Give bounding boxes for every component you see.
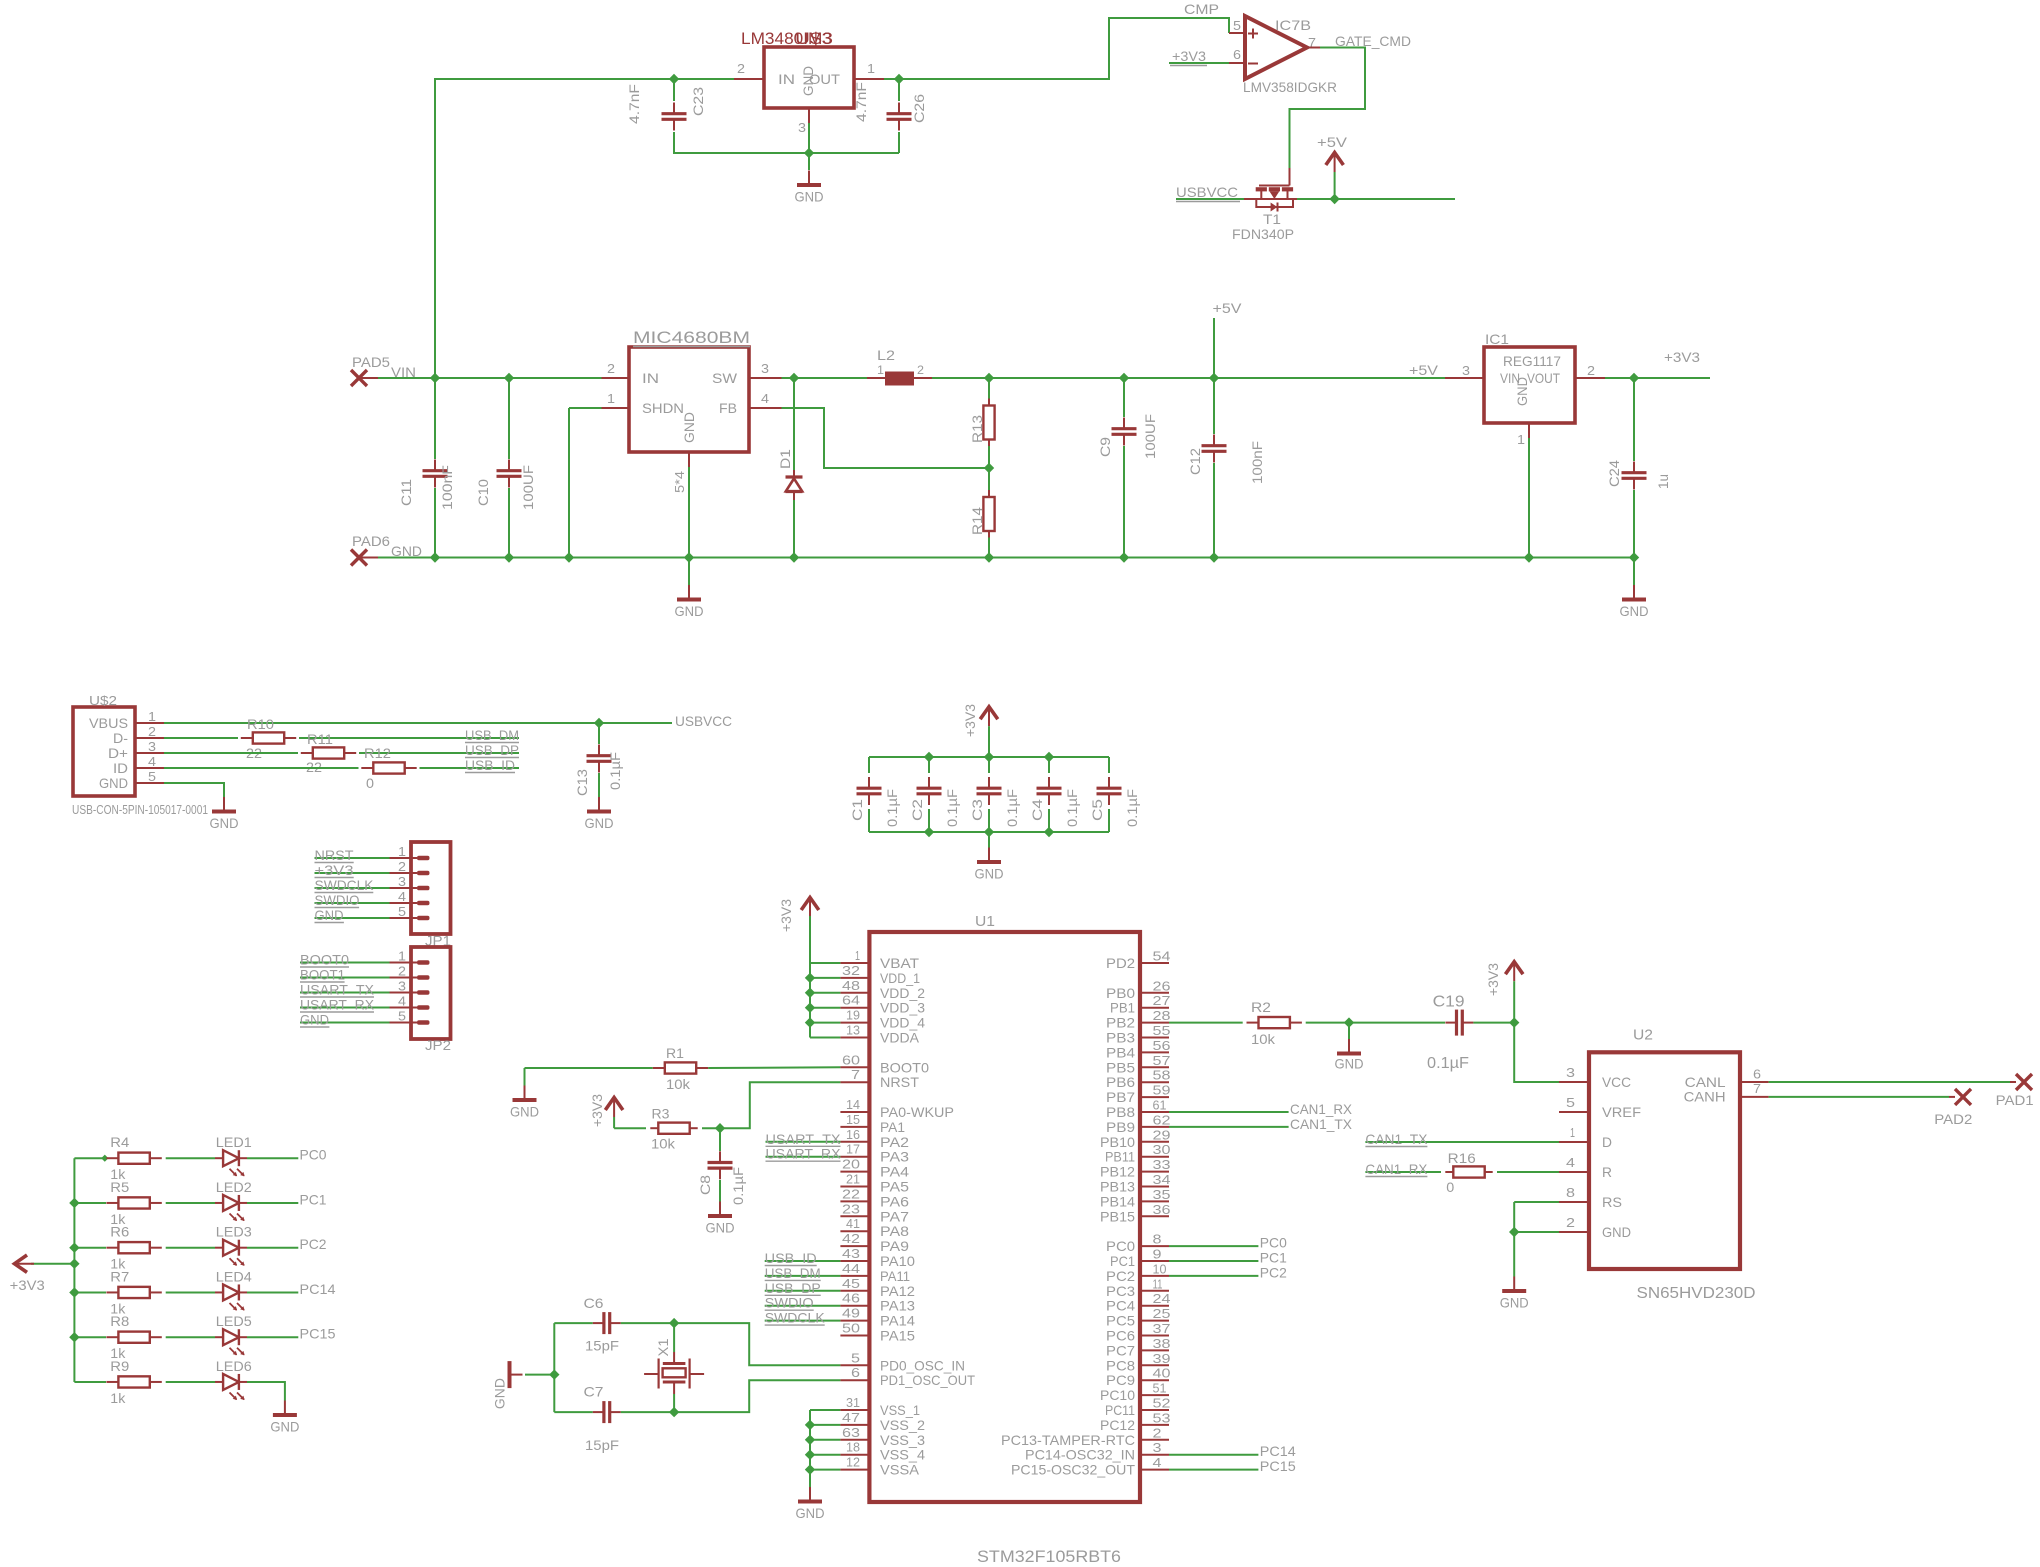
svg-text:LED1: LED1	[216, 1134, 252, 1150]
svg-text:+3V3: +3V3	[1172, 48, 1206, 64]
svg-text:3: 3	[398, 979, 406, 994]
svg-text:GND: GND	[795, 189, 824, 205]
svg-text:RS: RS	[1602, 1194, 1622, 1210]
svg-text:LED5: LED5	[216, 1313, 252, 1329]
svg-text:R12: R12	[364, 745, 391, 761]
svg-text:R: R	[1602, 1164, 1612, 1180]
svg-text:GND: GND	[675, 603, 704, 619]
svg-text:1: 1	[867, 61, 875, 76]
svg-text:PC4: PC4	[1106, 1298, 1135, 1314]
svg-text:53: 53	[1153, 1410, 1171, 1425]
svg-text:3: 3	[761, 361, 769, 376]
svg-text:R11: R11	[307, 731, 333, 747]
svg-text:+3V3: +3V3	[962, 704, 978, 737]
svg-text:0.1µF: 0.1µF	[884, 789, 900, 827]
svg-text:U$3: U$3	[795, 29, 833, 48]
svg-text:USB_DM: USB_DM	[765, 1265, 821, 1281]
svg-text:PB7: PB7	[1106, 1089, 1135, 1105]
svg-text:14: 14	[846, 1097, 860, 1112]
svg-text:10k: 10k	[1251, 1031, 1276, 1047]
svg-text:PB2: PB2	[1106, 1015, 1135, 1031]
svg-text:5: 5	[1233, 18, 1241, 33]
svg-text:PC5: PC5	[1106, 1313, 1135, 1329]
svg-text:PA3: PA3	[880, 1149, 909, 1165]
svg-text:45: 45	[842, 1276, 860, 1291]
svg-text:LED6: LED6	[216, 1358, 252, 1374]
svg-text:37: 37	[1153, 1321, 1171, 1336]
svg-text:31: 31	[846, 1395, 860, 1410]
svg-text:PC13-TAMPER-RTC: PC13-TAMPER-RTC	[1001, 1432, 1135, 1448]
svg-text:13: 13	[846, 1023, 860, 1038]
svg-text:8: 8	[1566, 1185, 1575, 1200]
svg-text:PB9: PB9	[1106, 1119, 1135, 1135]
svg-text:PC2: PC2	[1106, 1268, 1135, 1284]
svg-text:SN65HVD230D: SN65HVD230D	[1637, 1285, 1756, 1302]
svg-text:6: 6	[851, 1365, 860, 1380]
svg-text:R1: R1	[666, 1045, 684, 1061]
svg-text:R16: R16	[1448, 1150, 1476, 1166]
svg-text:10k: 10k	[666, 1076, 691, 1092]
svg-text:PC2: PC2	[300, 1236, 327, 1252]
svg-text:16: 16	[846, 1127, 860, 1142]
svg-text:1: 1	[855, 948, 860, 963]
svg-text:SWDCLK: SWDCLK	[765, 1310, 826, 1326]
svg-text:100nF: 100nF	[1249, 441, 1265, 484]
svg-text:+5V: +5V	[1317, 134, 1348, 150]
svg-text:6: 6	[1233, 47, 1241, 62]
svg-text:5: 5	[1566, 1095, 1575, 1110]
svg-text:60: 60	[842, 1052, 860, 1067]
svg-text:C6: C6	[584, 1295, 604, 1311]
svg-text:NRST: NRST	[880, 1074, 919, 1090]
svg-text:LED4: LED4	[216, 1268, 252, 1284]
svg-text:GND: GND	[492, 1378, 508, 1409]
svg-text:SW: SW	[712, 370, 738, 386]
svg-text:64: 64	[842, 993, 860, 1008]
svg-text:R2: R2	[1251, 999, 1271, 1015]
svg-text:54: 54	[1153, 949, 1171, 964]
svg-text:47: 47	[842, 1410, 860, 1425]
svg-text:VOUT: VOUT	[1527, 370, 1560, 386]
svg-text:1: 1	[877, 363, 884, 377]
svg-text:L2: L2	[877, 347, 895, 363]
svg-text:R9: R9	[110, 1358, 129, 1374]
svg-text:R3: R3	[652, 1106, 670, 1122]
svg-text:PB0: PB0	[1106, 985, 1135, 1001]
svg-text:3: 3	[148, 739, 156, 754]
svg-text:49: 49	[842, 1306, 860, 1321]
svg-text:26: 26	[1153, 978, 1171, 993]
svg-text:USB_DP: USB_DP	[765, 1280, 821, 1296]
svg-text:PC0: PC0	[300, 1147, 327, 1163]
svg-text:JP2: JP2	[425, 1037, 451, 1053]
svg-text:PA14: PA14	[880, 1313, 915, 1329]
svg-text:GND: GND	[210, 815, 239, 831]
svg-text:4: 4	[398, 994, 406, 1009]
svg-text:R14: R14	[969, 507, 985, 535]
svg-text:50: 50	[842, 1321, 860, 1336]
svg-text:FDN340P: FDN340P	[1232, 226, 1294, 242]
svg-text:2: 2	[148, 724, 156, 739]
svg-text:R4: R4	[110, 1134, 129, 1150]
svg-text:IN: IN	[778, 71, 795, 87]
svg-text:C5: C5	[1089, 799, 1105, 821]
svg-text:39: 39	[1153, 1351, 1171, 1366]
svg-text:43: 43	[842, 1246, 860, 1261]
svg-text:C8: C8	[697, 1175, 713, 1195]
svg-text:44: 44	[842, 1261, 860, 1276]
svg-text:PA9: PA9	[880, 1238, 909, 1254]
svg-text:GND: GND	[1514, 377, 1530, 406]
svg-text:CAN1_RX: CAN1_RX	[1290, 1101, 1353, 1117]
svg-text:+3V3: +3V3	[10, 1277, 45, 1293]
svg-text:USART_TX: USART_TX	[766, 1131, 842, 1147]
svg-text:LED2: LED2	[216, 1179, 252, 1195]
svg-text:U$2: U$2	[89, 693, 117, 708]
svg-text:C9: C9	[1097, 437, 1113, 457]
svg-text:OUT: OUT	[809, 71, 840, 87]
svg-text:15pF: 15pF	[585, 1437, 619, 1453]
svg-text:ID: ID	[113, 760, 128, 776]
svg-text:USART_RX: USART_RX	[766, 1146, 842, 1162]
svg-text:C11: C11	[398, 479, 414, 506]
svg-text:7: 7	[851, 1067, 860, 1082]
svg-text:X1: X1	[655, 1338, 671, 1356]
svg-text:PAD2: PAD2	[1934, 1111, 1972, 1127]
svg-text:PB10: PB10	[1100, 1134, 1135, 1150]
svg-text:+3V3: +3V3	[315, 862, 354, 878]
svg-text:4: 4	[1153, 1455, 1162, 1470]
svg-text:0.1µF: 0.1µF	[730, 1167, 746, 1205]
svg-text:28: 28	[1153, 1008, 1171, 1023]
svg-text:GND: GND	[1620, 603, 1649, 619]
svg-text:4: 4	[398, 889, 406, 904]
svg-text:PB4: PB4	[1106, 1044, 1135, 1060]
svg-text:8: 8	[1153, 1232, 1162, 1247]
svg-text:38: 38	[1153, 1336, 1171, 1351]
svg-text:VDD_4: VDD_4	[880, 1015, 925, 1031]
svg-text:PA2: PA2	[880, 1134, 909, 1150]
svg-text:R7: R7	[110, 1268, 129, 1284]
svg-text:PB5: PB5	[1106, 1059, 1135, 1075]
svg-text:5: 5	[398, 1009, 406, 1024]
svg-text:PD1_OSC_OUT: PD1_OSC_OUT	[880, 1372, 975, 1388]
svg-text:U1: U1	[975, 913, 995, 930]
svg-text:BOOT0: BOOT0	[300, 952, 349, 968]
svg-text:VDDA: VDDA	[880, 1030, 920, 1046]
svg-text:3: 3	[1462, 363, 1470, 378]
svg-text:LMV358IDGKR: LMV358IDGKR	[1243, 79, 1337, 95]
svg-text:PA12: PA12	[880, 1283, 915, 1299]
svg-text:15pF: 15pF	[585, 1338, 619, 1354]
svg-text:18: 18	[846, 1440, 860, 1455]
svg-text:3: 3	[1566, 1065, 1575, 1080]
svg-text:5: 5	[148, 769, 156, 784]
svg-text:C23: C23	[690, 87, 706, 116]
svg-text:PA11: PA11	[880, 1268, 910, 1284]
svg-text:+3V3: +3V3	[778, 899, 794, 932]
svg-text:USB_ID: USB_ID	[465, 757, 515, 773]
svg-text:PC1: PC1	[300, 1191, 327, 1207]
svg-text:PA4: PA4	[880, 1164, 909, 1180]
svg-text:27: 27	[1153, 993, 1171, 1008]
svg-text:0.1µF: 0.1µF	[1427, 1055, 1469, 1072]
svg-text:PC9: PC9	[1106, 1372, 1135, 1388]
svg-text:10k: 10k	[651, 1136, 676, 1152]
svg-text:C10: C10	[475, 479, 491, 506]
svg-text:10: 10	[1153, 1261, 1167, 1276]
svg-text:1: 1	[148, 709, 156, 724]
svg-text:PC10: PC10	[1100, 1387, 1135, 1403]
svg-text:57: 57	[1153, 1053, 1171, 1068]
svg-text:PC14: PC14	[300, 1281, 336, 1297]
svg-text:BOOT0: BOOT0	[880, 1059, 929, 1075]
svg-text:2: 2	[917, 363, 924, 377]
svg-text:PC11: PC11	[1105, 1402, 1135, 1418]
svg-text:R5: R5	[110, 1179, 129, 1195]
svg-text:36: 36	[1153, 1202, 1171, 1217]
svg-text:USBVCC: USBVCC	[675, 713, 732, 729]
svg-text:PB6: PB6	[1106, 1074, 1135, 1090]
svg-text:REG1117: REG1117	[1503, 353, 1561, 369]
svg-text:PB12: PB12	[1100, 1164, 1135, 1180]
svg-text:23: 23	[842, 1201, 860, 1216]
svg-text:0: 0	[1446, 1179, 1454, 1195]
svg-text:C26: C26	[911, 94, 927, 123]
svg-text:29: 29	[1153, 1127, 1171, 1142]
svg-text:2: 2	[737, 61, 745, 76]
svg-text:1: 1	[398, 949, 406, 964]
svg-text:STM32F105RBT6: STM32F105RBT6	[977, 1548, 1121, 1566]
svg-text:2: 2	[1587, 363, 1595, 378]
svg-text:PD0_OSC_IN: PD0_OSC_IN	[880, 1357, 965, 1373]
svg-text:35: 35	[1153, 1187, 1171, 1202]
svg-text:22: 22	[842, 1186, 860, 1201]
svg-text:4.7nF: 4.7nF	[853, 82, 869, 122]
svg-text:PC8: PC8	[1106, 1357, 1135, 1373]
svg-text:11: 11	[1153, 1276, 1163, 1291]
svg-text:PC15: PC15	[1260, 1458, 1296, 1474]
svg-text:0.1µF: 0.1µF	[1124, 789, 1140, 827]
svg-text:PC14: PC14	[1260, 1443, 1296, 1459]
svg-text:1: 1	[607, 391, 615, 406]
svg-text:15: 15	[846, 1112, 860, 1127]
svg-text:VSSA: VSSA	[880, 1462, 920, 1478]
svg-text:CAN1_RX: CAN1_RX	[1365, 1161, 1428, 1177]
svg-text:PB11: PB11	[1105, 1149, 1135, 1165]
svg-text:PA10: PA10	[880, 1253, 915, 1269]
svg-text:0.1µF: 0.1µF	[1064, 789, 1080, 827]
svg-text:100UF: 100UF	[1142, 414, 1158, 459]
svg-text:+3V3: +3V3	[1664, 349, 1700, 365]
svg-text:12: 12	[846, 1455, 860, 1470]
svg-text:46: 46	[842, 1291, 860, 1306]
svg-text:1: 1	[1517, 432, 1525, 447]
svg-text:IC1: IC1	[1485, 331, 1509, 347]
svg-text:T1: T1	[1263, 211, 1281, 227]
svg-text:PA15: PA15	[880, 1328, 915, 1344]
svg-text:7: 7	[1753, 1081, 1761, 1096]
svg-text:PA0-WKUP: PA0-WKUP	[880, 1104, 954, 1120]
svg-text:PC15-OSC32_OUT: PC15-OSC32_OUT	[1011, 1462, 1135, 1478]
svg-text:USBVCC: USBVCC	[1176, 184, 1238, 200]
svg-text:PAD5: PAD5	[352, 354, 390, 370]
svg-text:55: 55	[1153, 1023, 1171, 1038]
svg-text:LED3: LED3	[216, 1224, 252, 1240]
svg-text:D-: D-	[113, 730, 128, 746]
svg-text:GND: GND	[99, 775, 128, 791]
svg-text:VCC: VCC	[1602, 1074, 1631, 1090]
svg-text:1k: 1k	[110, 1390, 126, 1406]
svg-text:GND: GND	[300, 1012, 329, 1028]
svg-text:17: 17	[846, 1142, 860, 1157]
svg-text:C7: C7	[584, 1384, 604, 1400]
svg-text:20: 20	[842, 1157, 860, 1172]
svg-text:CAN1_TX: CAN1_TX	[1290, 1116, 1353, 1132]
svg-text:25: 25	[1153, 1306, 1171, 1321]
svg-text:SHDN: SHDN	[642, 400, 684, 416]
svg-text:USB_DM: USB_DM	[465, 727, 519, 743]
svg-text:VSS_2: VSS_2	[880, 1417, 925, 1433]
svg-text:100UF: 100UF	[520, 465, 536, 510]
svg-text:PC14-OSC32_IN: PC14-OSC32_IN	[1025, 1447, 1135, 1463]
svg-text:VREF: VREF	[1602, 1104, 1641, 1120]
svg-text:+5V: +5V	[1213, 300, 1243, 316]
svg-text:PB8: PB8	[1106, 1104, 1135, 1120]
svg-text:5: 5	[851, 1350, 860, 1365]
svg-text:PC7: PC7	[1106, 1342, 1135, 1358]
svg-text:CAN1_TX: CAN1_TX	[1365, 1131, 1428, 1147]
svg-text:PA8: PA8	[880, 1223, 909, 1239]
svg-text:4: 4	[1566, 1155, 1575, 1170]
svg-text:PC2: PC2	[1260, 1264, 1287, 1280]
svg-text:61: 61	[1153, 1098, 1167, 1113]
svg-text:PC1: PC1	[1260, 1250, 1287, 1266]
svg-text:C2: C2	[909, 799, 925, 821]
svg-text:GND: GND	[796, 1505, 825, 1521]
svg-text:56: 56	[1153, 1038, 1171, 1053]
svg-text:9: 9	[1153, 1247, 1162, 1262]
svg-text:BOOT1: BOOT1	[300, 967, 345, 983]
svg-text:PC0: PC0	[1106, 1238, 1135, 1254]
svg-text:PB15: PB15	[1100, 1208, 1135, 1224]
svg-text:FB: FB	[719, 400, 737, 416]
svg-text:SWDIO: SWDIO	[765, 1295, 814, 1311]
svg-text:0.1µF: 0.1µF	[607, 752, 623, 790]
svg-text:C24: C24	[1606, 460, 1622, 487]
svg-text:2: 2	[607, 361, 615, 376]
svg-text:D: D	[1602, 1134, 1612, 1150]
svg-text:PC1: PC1	[1110, 1253, 1135, 1269]
svg-text:PB13: PB13	[1100, 1179, 1135, 1195]
svg-text:+3V3: +3V3	[1485, 963, 1501, 996]
svg-text:1u: 1u	[1655, 474, 1671, 489]
svg-text:GND: GND	[681, 412, 697, 443]
svg-text:PC12: PC12	[1100, 1417, 1135, 1433]
svg-text:R8: R8	[110, 1313, 129, 1329]
svg-text:6: 6	[1753, 1066, 1761, 1081]
svg-text:R10: R10	[247, 716, 274, 732]
svg-text:PC15: PC15	[300, 1326, 336, 1342]
svg-text:41: 41	[846, 1216, 860, 1231]
svg-text:PA5: PA5	[880, 1179, 909, 1195]
svg-text:SWDCLK: SWDCLK	[315, 877, 375, 893]
svg-text:R6: R6	[110, 1224, 129, 1240]
svg-text:42: 42	[842, 1231, 860, 1246]
svg-text:IN: IN	[642, 370, 659, 386]
svg-text:USART_TX: USART_TX	[300, 982, 375, 998]
svg-text:IC7B: IC7B	[1275, 17, 1311, 33]
svg-text:GND: GND	[1602, 1224, 1631, 1240]
svg-text:VDD_2: VDD_2	[880, 985, 925, 1001]
svg-text:4.7nF: 4.7nF	[626, 84, 642, 124]
svg-text:PC3: PC3	[1106, 1283, 1135, 1299]
svg-text:4: 4	[148, 754, 156, 769]
svg-text:PB3: PB3	[1106, 1030, 1135, 1046]
svg-text:3: 3	[798, 120, 806, 135]
svg-text:GND: GND	[1500, 1295, 1529, 1311]
svg-text:NRST: NRST	[315, 847, 354, 863]
svg-text:+3V3: +3V3	[589, 1094, 605, 1127]
svg-text:3: 3	[1153, 1440, 1162, 1455]
svg-text:PA13: PA13	[880, 1298, 915, 1314]
svg-text:58: 58	[1153, 1068, 1171, 1083]
svg-text:VSS_3: VSS_3	[880, 1432, 925, 1448]
svg-text:GND: GND	[706, 1220, 735, 1236]
svg-text:2: 2	[1566, 1215, 1575, 1230]
svg-text:PB1: PB1	[1110, 1000, 1135, 1016]
svg-text:CANH: CANH	[1684, 1089, 1726, 1105]
svg-text:VSS_1: VSS_1	[880, 1402, 920, 1418]
svg-text:VDD_1: VDD_1	[880, 970, 920, 986]
svg-text:40: 40	[1153, 1366, 1171, 1381]
svg-text:PAD1: PAD1	[1996, 1092, 2034, 1108]
svg-text:CMP: CMP	[1184, 1, 1219, 17]
svg-text:VSS_4: VSS_4	[880, 1447, 925, 1463]
svg-text:CANL: CANL	[1685, 1074, 1726, 1090]
svg-text:C19: C19	[1433, 994, 1465, 1011]
svg-text:59: 59	[1153, 1083, 1171, 1098]
svg-text:D+: D+	[108, 745, 128, 761]
svg-text:0.1µF: 0.1µF	[944, 789, 960, 827]
svg-text:GND: GND	[315, 907, 344, 923]
svg-text:30: 30	[1153, 1142, 1171, 1157]
svg-text:19: 19	[846, 1008, 860, 1023]
svg-text:24: 24	[1153, 1291, 1171, 1306]
svg-text:0.1µF: 0.1µF	[1004, 789, 1020, 827]
svg-text:C4: C4	[1029, 799, 1045, 821]
svg-text:VBAT: VBAT	[880, 955, 919, 971]
svg-text:C13: C13	[574, 769, 590, 796]
svg-text:C12: C12	[1187, 448, 1203, 475]
svg-text:52: 52	[1153, 1396, 1171, 1411]
svg-text:+5V: +5V	[1409, 362, 1439, 378]
svg-text:32: 32	[842, 963, 860, 978]
svg-text:PA1: PA1	[880, 1119, 905, 1135]
svg-text:33: 33	[1153, 1157, 1171, 1172]
svg-text:PB14: PB14	[1100, 1193, 1135, 1209]
svg-text:VBUS: VBUS	[89, 715, 128, 731]
svg-text:1: 1	[398, 844, 406, 859]
svg-text:21: 21	[846, 1172, 860, 1187]
svg-text:PAD6: PAD6	[352, 533, 390, 549]
svg-text:2: 2	[1153, 1425, 1162, 1440]
svg-text:GND: GND	[1335, 1056, 1364, 1072]
svg-text:R13: R13	[969, 415, 985, 443]
svg-text:5*4: 5*4	[672, 471, 687, 493]
svg-text:GND: GND	[585, 815, 614, 831]
svg-text:VDD_3: VDD_3	[880, 1000, 925, 1016]
